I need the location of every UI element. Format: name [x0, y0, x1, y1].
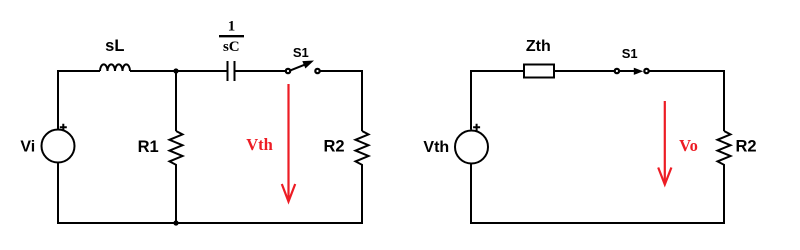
svg-text:Vth: Vth — [246, 135, 273, 154]
svg-text:R2: R2 — [735, 138, 756, 156]
svg-text:S1: S1 — [622, 46, 638, 61]
svg-text:R1: R1 — [138, 138, 159, 156]
svg-text:sL: sL — [105, 37, 124, 55]
svg-text:Vth: Vth — [423, 139, 449, 156]
svg-text:1: 1 — [228, 19, 236, 35]
svg-text:sC: sC — [223, 39, 240, 55]
svg-text:S1: S1 — [293, 45, 309, 60]
svg-text:Vo: Vo — [679, 136, 698, 155]
svg-text:Zth: Zth — [526, 38, 551, 55]
svg-text:R2: R2 — [323, 138, 344, 156]
svg-text:Vi: Vi — [20, 138, 35, 155]
